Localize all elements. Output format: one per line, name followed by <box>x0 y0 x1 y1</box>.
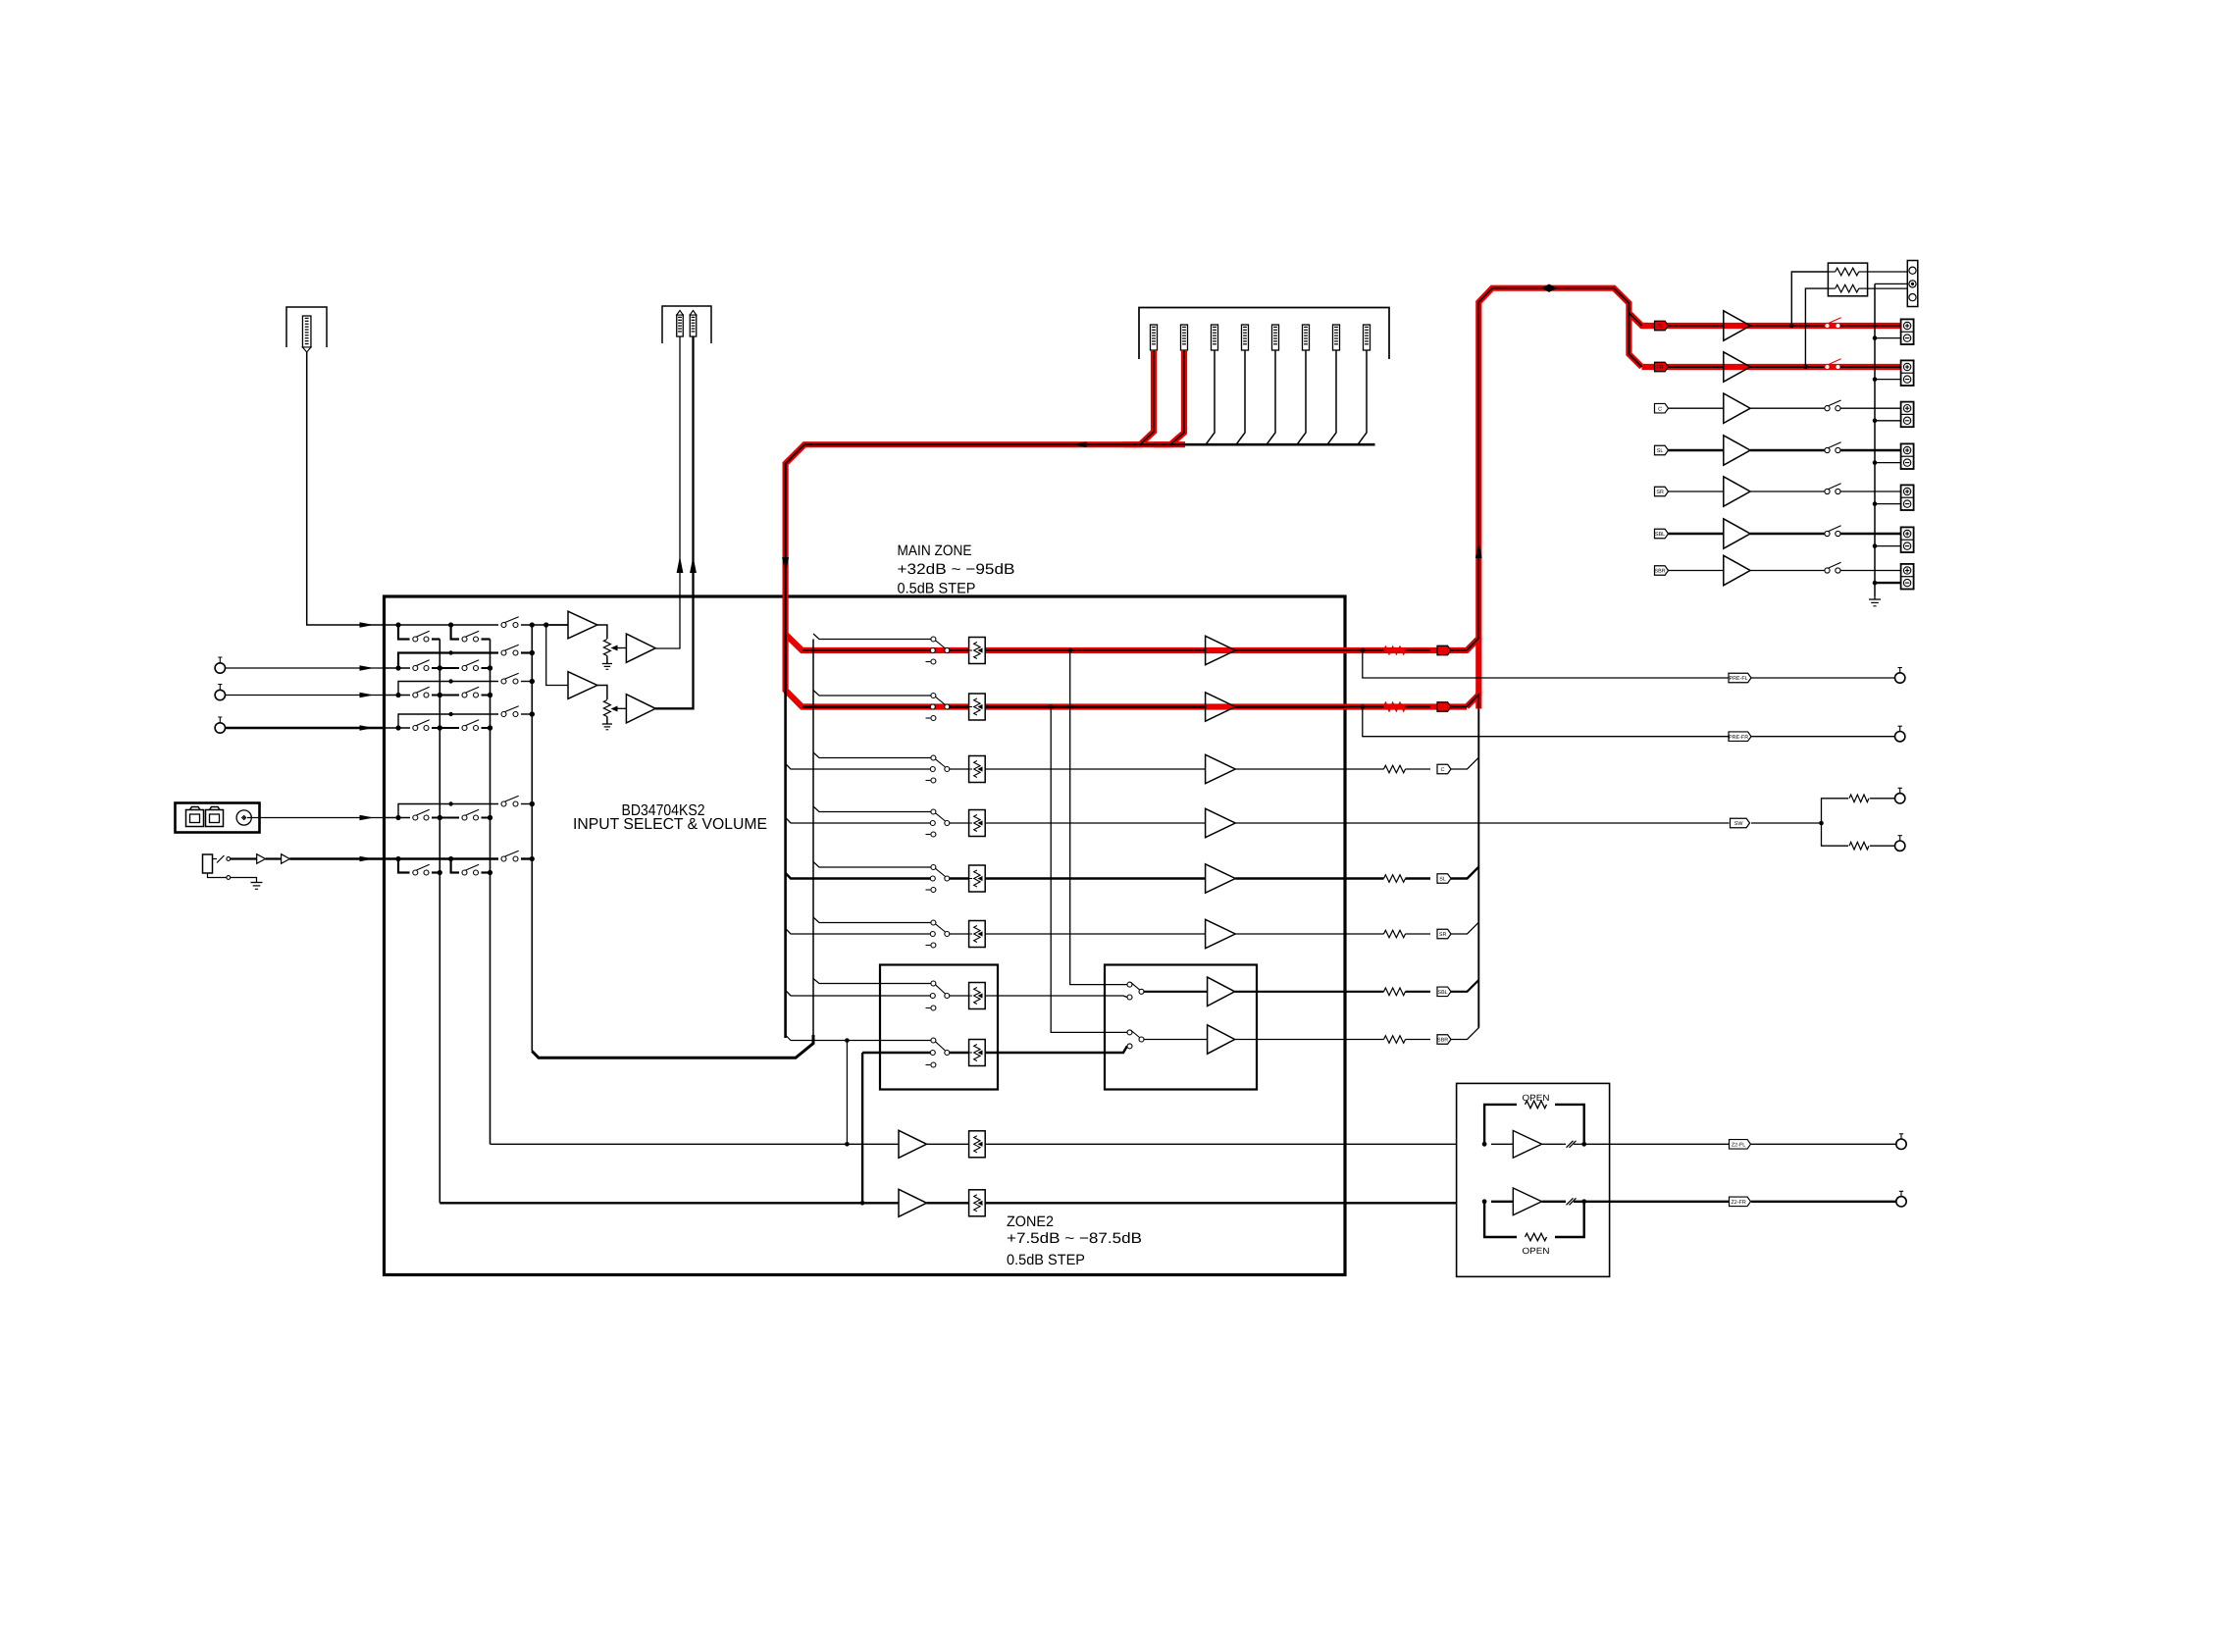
net tag SR out <box>1437 929 1451 939</box>
wire amp to relay SBL <box>1750 533 1825 535</box>
ground hp <box>251 882 263 884</box>
zone2 output block <box>1457 1083 1610 1276</box>
junction to zone2-L <box>845 1038 850 1043</box>
record tap FR vertical <box>1051 707 1127 1033</box>
wire relay to terminal SBR <box>1840 570 1901 572</box>
wire zone2-L out <box>985 1143 1456 1145</box>
wire relay to terminal FR <box>1840 366 1901 368</box>
bus3 link to tape bus <box>532 1035 813 1058</box>
terminal minus tap SL <box>1875 462 1901 464</box>
wire tape bus feed row SL <box>786 873 931 879</box>
jack zone2 R <box>1896 1197 1906 1207</box>
wire row FR from red bevel <box>802 705 930 707</box>
rec buffer U2a <box>546 625 568 686</box>
toslink connector 2 <box>206 810 224 827</box>
input switch row C <box>931 755 936 760</box>
headphone jack <box>203 854 213 873</box>
svg-text:0.5dB STEP: 0.5dB STEP <box>898 581 976 597</box>
input switch row SR <box>931 920 936 925</box>
connector CN3 pin 1 <box>1151 325 1158 350</box>
row RCA3 branch col3 <box>398 714 410 728</box>
zone2 amp Z2R <box>1482 1199 1487 1204</box>
wire row FL from red bevel <box>802 649 930 651</box>
bypass line row C <box>813 752 931 758</box>
wire tape bus feed row C <box>786 764 931 770</box>
speaker terminal FR <box>1901 360 1914 386</box>
row1 source wire <box>385 624 499 626</box>
net tag SBR out <box>1437 1035 1451 1045</box>
wire amp to relay FL <box>1750 325 1825 327</box>
svg-text:FL: FL <box>1657 324 1663 330</box>
volume element row SL <box>969 865 986 892</box>
row RCA2 branch col3 <box>398 682 410 696</box>
switch row RCA2 col3 <box>501 679 506 684</box>
wire volume to buffer row C <box>985 768 1205 770</box>
switch row1 col3 <box>501 623 506 628</box>
connector CN3 pin 8 <box>1364 325 1371 350</box>
wire bypass to SB-L top throw <box>813 979 931 984</box>
bus1 vertical select bus <box>439 640 440 1204</box>
net tag SW <box>1731 818 1750 828</box>
wire core pin2 <box>1170 350 1184 444</box>
terminal minus tap SBR <box>1875 582 1901 584</box>
hp sleeve to ground <box>208 873 227 878</box>
wire amp to relay SR <box>1750 490 1825 492</box>
resistor OPEN Z2L <box>1526 1101 1547 1109</box>
wire amp to relay C <box>1750 407 1825 409</box>
wire CN3 pin 8 <box>1358 350 1367 444</box>
power amp SL <box>1724 436 1750 465</box>
wire R2 to header <box>1868 287 1908 289</box>
wire R1 to FL row <box>1791 272 1828 326</box>
wire amp to relay SL <box>1750 449 1825 451</box>
wire buffer out row SL <box>1235 877 1345 879</box>
wire SW out <box>1345 822 1730 824</box>
wire CN1 to row1 <box>307 351 385 625</box>
net tag Z2-L <box>1730 1140 1751 1150</box>
level resistor R-rec1 <box>603 640 610 656</box>
switch row optical col1 <box>413 815 418 820</box>
resistor network R1 <box>1836 268 1859 276</box>
input switch row SW <box>931 809 936 814</box>
speaker terminal SR <box>1901 485 1914 510</box>
open link Z2L <box>1567 1141 1574 1148</box>
volume element row SW <box>969 810 986 837</box>
connector CN1 bracket <box>286 307 327 347</box>
sub block volume SB <box>880 965 998 1090</box>
connector CN2 bracket <box>662 306 711 343</box>
volume element row FR <box>969 694 986 720</box>
relay switch C <box>1825 406 1830 411</box>
optical/coax input box <box>176 803 260 833</box>
svg-text:0.5dB STEP: 0.5dB STEP <box>1007 1252 1085 1268</box>
resistor SR out <box>1345 933 1384 935</box>
wire C to bus riser <box>1451 757 1478 769</box>
volume element SB-L <box>950 995 969 997</box>
red path bus to volume IC <box>786 444 1185 706</box>
power amp FL <box>1724 311 1750 340</box>
resistor SBR out <box>1345 1039 1384 1041</box>
speaker terminal SBR <box>1901 564 1914 590</box>
pre-out FL branch <box>1363 650 1730 678</box>
connector CN3 pin 4 <box>1242 325 1249 350</box>
buffer SBR <box>1208 1025 1235 1054</box>
relay switch FL <box>1825 323 1830 328</box>
wire hp row to IC <box>289 857 384 859</box>
bypass line row SR <box>813 917 931 923</box>
net tag C out <box>1437 764 1451 774</box>
bus3 vertical select bus <box>531 625 533 1052</box>
toslink connector 1 <box>186 810 204 827</box>
bypass line row FR <box>813 691 931 697</box>
bus2 vertical select bus <box>490 640 492 1145</box>
wire switch to volume row SL <box>950 877 969 879</box>
red path amp rows FL FR <box>1642 323 1901 329</box>
jack PRE-FR <box>1895 732 1905 742</box>
wire to power amp SBR <box>1669 570 1724 572</box>
svg-text:PRE-FL: PRE-FL <box>1730 676 1748 682</box>
wire optical row to IC <box>247 817 385 819</box>
input switch SB-L <box>931 981 936 986</box>
buffer row C <box>1206 754 1236 783</box>
RCA input jack 2 <box>215 690 225 699</box>
wire relay to terminal SL <box>1840 449 1901 451</box>
row1 branch col1 <box>398 625 410 640</box>
resistor C out <box>1345 768 1384 770</box>
switch row optical col3 <box>501 801 506 806</box>
svg-text:INPUT SELECT & VOLUME: INPUT SELECT & VOLUME <box>573 816 767 833</box>
svg-text:FR: FR <box>1657 365 1664 371</box>
select switch SBL <box>1127 982 1132 987</box>
junction diamond on riser top <box>1541 284 1557 292</box>
wire volume to buffer row SW <box>985 822 1205 824</box>
input switch row SL <box>931 865 936 870</box>
hp branch col1 <box>398 859 410 873</box>
wire R2 to FR row <box>1805 288 1828 367</box>
row RCA1 wire in matrix <box>385 667 411 669</box>
svg-text:C: C <box>1441 767 1445 773</box>
connector CN3 pin 3 <box>1212 325 1218 350</box>
wire hp to buffer <box>231 857 257 859</box>
volume element row FL <box>969 638 986 664</box>
svg-text:SR: SR <box>1656 490 1664 495</box>
net tag amp C <box>1655 403 1669 413</box>
record tap FL vertical <box>1070 650 1127 985</box>
wire amp to relay SBR <box>1750 570 1825 572</box>
svg-text:MAIN ZONE: MAIN ZONE <box>898 542 972 559</box>
wire to power amp FR <box>1669 366 1724 368</box>
wire SBL to bus riser <box>1451 980 1478 992</box>
wire tape bus to SB-L input <box>786 991 931 997</box>
wire buffer out SBR <box>1235 1039 1345 1041</box>
wire CN3 pin 5 <box>1267 350 1275 444</box>
ground speaker bus <box>1874 596 1876 599</box>
wire zone2-L to jack <box>1610 1143 1730 1145</box>
wire bus1 to zone2-R <box>440 1202 899 1204</box>
buffer row SL <box>1206 864 1236 893</box>
RCA input jack 1 <box>215 663 225 673</box>
jack SW1 <box>1895 794 1905 803</box>
jack PRE-FL <box>1895 673 1905 683</box>
switch row RCA2 col1 <box>413 693 418 697</box>
wire buffer out row SR <box>1235 933 1345 935</box>
wire minus bus to header <box>1875 283 1907 284</box>
svg-text:SBR: SBR <box>1655 569 1666 575</box>
net tag FR out <box>1437 702 1451 712</box>
wire relay to terminal FL <box>1840 325 1901 327</box>
svg-text:SR: SR <box>1439 932 1447 938</box>
resistor OPEN Z2R <box>1526 1233 1547 1241</box>
bus main-in black <box>1184 443 1375 446</box>
net tag SL out <box>1437 874 1451 884</box>
wire switch to volume row C <box>950 768 969 770</box>
svg-text:SBL: SBL <box>1655 532 1665 538</box>
wire core pin1 <box>1140 350 1154 444</box>
wire volume to buffer row SR <box>985 933 1205 935</box>
terminal minus tap C <box>1875 420 1901 422</box>
select switch SBR <box>1127 1030 1132 1035</box>
svg-text:SBL: SBL <box>1437 990 1447 996</box>
power amp SR <box>1724 477 1750 506</box>
wire relay to terminal SR <box>1840 490 1901 492</box>
resistor SBL out <box>1345 991 1384 993</box>
relay switch FR <box>1825 364 1830 369</box>
bypass line row FL <box>813 634 931 640</box>
wire to power amp SL <box>1669 449 1724 451</box>
switch row RCA2 col2 <box>462 693 467 697</box>
wire CN3 pin 7 <box>1327 350 1336 444</box>
terminal minus tap FR <box>1875 379 1901 381</box>
resistor SW2 <box>1849 842 1869 850</box>
switch hp col3 <box>501 856 506 861</box>
wire CN3 pin 6 <box>1297 350 1306 444</box>
net tag SBL out <box>1437 987 1451 997</box>
net tag amp SL <box>1655 445 1669 455</box>
speaker terminal SL <box>1901 443 1914 469</box>
ground rec1 <box>602 663 612 665</box>
coax jack <box>236 810 251 825</box>
switch row RCA1 col3 <box>501 650 506 655</box>
relay switch SR <box>1825 489 1830 493</box>
svg-text:OPEN: OPEN <box>1523 1093 1550 1103</box>
input switch row FL <box>931 637 936 642</box>
buffer row FL <box>1206 636 1236 664</box>
headphone jack contact <box>213 858 218 860</box>
wire switch to volume row FR <box>950 705 969 707</box>
zone2-R volume element <box>969 1190 986 1216</box>
tape bus vertical <box>784 635 787 1039</box>
bus riser to main-in <box>1477 709 1479 1028</box>
wire amp to relay FR <box>1750 366 1825 368</box>
buffer SBL <box>1208 977 1235 1006</box>
zone2-R buffer <box>899 1189 927 1216</box>
wire rec out R <box>655 336 694 708</box>
wire switch to volume row FL <box>950 649 969 651</box>
wire volume to buffer row FL <box>985 649 1205 651</box>
header 3pin <box>1907 261 1918 307</box>
resistor network R2 <box>1836 284 1859 292</box>
ground rec2 <box>602 723 612 725</box>
connector CN3 bracket <box>1139 308 1389 360</box>
svg-text:SL: SL <box>1439 877 1446 883</box>
switch row RCA1 col1 <box>413 666 418 671</box>
wire CN3 pin 3 <box>1206 350 1215 444</box>
pre-out FR branch <box>1363 707 1730 737</box>
connector CN3 pin 5 <box>1272 325 1279 350</box>
net tag FL out <box>1437 645 1451 655</box>
bypass line row SL <box>813 862 931 868</box>
wire to buffer SBR <box>1144 1039 1208 1041</box>
terminal minus tap SR <box>1875 503 1901 505</box>
svg-text:PRE-FR: PRE-FR <box>1729 735 1748 741</box>
wire SBR to bus riser <box>1451 1028 1478 1040</box>
svg-text:OPEN: OPEN <box>1523 1246 1550 1256</box>
wire zone2-R out <box>985 1202 1456 1204</box>
jack zone2 L <box>1896 1139 1906 1149</box>
wire core bus <box>786 444 1186 634</box>
terminal minus tap FL <box>1875 337 1901 339</box>
buffer row SR <box>1206 919 1236 948</box>
connector CN3 pin 6 <box>1303 325 1310 350</box>
svg-text:SW: SW <box>1734 821 1744 827</box>
terminal minus tap SBL <box>1875 545 1901 547</box>
wire to power amp C <box>1669 407 1724 409</box>
IC block BD34704KS2 input select &amp; volume <box>385 596 1346 1275</box>
switch row RCA3 col2 <box>462 726 467 731</box>
svg-text:+32dB ~ −95dB: +32dB ~ −95dB <box>898 561 1015 578</box>
net tag amp FL <box>1655 321 1669 331</box>
resistor FL out <box>1384 646 1406 654</box>
input switch row FR <box>931 694 936 698</box>
row optical wire in matrix <box>385 817 411 819</box>
hp buffer 1 <box>257 854 266 864</box>
svg-text:+7.5dB ~ −87.5dB: +7.5dB ~ −87.5dB <box>1007 1230 1142 1247</box>
net tag amp FR <box>1655 362 1669 372</box>
rec buffer U1a <box>549 624 568 626</box>
hp buffer 2 <box>266 857 282 859</box>
wire to power amp FL <box>1669 325 1724 327</box>
level resistor R-rec2 <box>603 700 610 717</box>
relay switch SBR <box>1825 568 1830 573</box>
wire to buffer SBL <box>1144 991 1208 993</box>
wire RCA input 2 to IC <box>226 695 385 697</box>
speaker terminal SBL <box>1901 527 1914 552</box>
resistor SL out <box>1345 877 1384 879</box>
power amp SBL <box>1724 519 1750 548</box>
switch row RCA1 col2 <box>462 666 467 671</box>
wire SW1 branch <box>1822 799 1849 823</box>
wire rec out L <box>655 336 680 648</box>
resistor FR out <box>1384 703 1406 711</box>
wire switch to volume row SW <box>950 822 969 824</box>
wire relay to terminal C <box>1840 407 1901 409</box>
rec buffer U1b <box>626 634 655 662</box>
wire zone2 bus to SB-R input <box>862 1052 930 1054</box>
wire buffer out row SW <box>1235 822 1345 824</box>
rec buffer U2b <box>626 695 655 723</box>
jack SW2 <box>1895 841 1905 851</box>
wire SW2 branch <box>1822 823 1849 846</box>
connector CN1 pin <box>302 316 311 347</box>
wire tape bus end to SB-R top throw <box>786 1035 931 1041</box>
buffer row SW <box>1206 808 1236 837</box>
row hp in matrix <box>385 857 499 859</box>
wire volume to buffer row SL <box>985 877 1205 879</box>
wire buffer out SBL <box>1235 991 1345 993</box>
zone2 amp Z2L <box>1482 1142 1487 1147</box>
volume element row C <box>969 756 986 783</box>
impedance resistor box <box>1828 263 1867 296</box>
relay switch SL <box>1825 447 1830 452</box>
wire switch to volume row SR <box>950 933 969 935</box>
net tag PRE-FL <box>1729 673 1751 683</box>
switch row optical col2 <box>462 815 467 820</box>
RCA input jack 3 <box>215 723 225 733</box>
row RCA1 branch col3 <box>398 653 410 669</box>
net tag amp SR <box>1655 487 1669 496</box>
wire zone2-R to jack <box>1610 1201 1730 1203</box>
zone2-L volume element <box>969 1131 986 1158</box>
row RCA3 wire in matrix <box>385 727 411 729</box>
net tag amp SBL <box>1655 529 1669 539</box>
open link Z2R <box>1567 1198 1574 1205</box>
wire relay to terminal SBL <box>1840 533 1901 535</box>
net tag Z2-R <box>1730 1197 1751 1207</box>
switch row RCA3 col3 <box>501 712 506 717</box>
svg-text:ZONE2: ZONE2 <box>1007 1213 1054 1230</box>
wire buffer out row FR <box>1235 705 1345 707</box>
wire buffer out row C <box>1235 768 1345 770</box>
wire tape bus feed row SW <box>786 818 931 824</box>
power amp FR <box>1724 352 1750 382</box>
wire CN3 pin 4 <box>1236 350 1245 444</box>
wire bus2 to zone2-L <box>491 1143 900 1145</box>
connector CN3 pin 7 <box>1333 325 1340 350</box>
wire to power amp SR <box>1669 490 1724 492</box>
row RCA2 wire in matrix <box>385 695 411 697</box>
svg-text:Z2-FL: Z2-FL <box>1732 1142 1745 1148</box>
wire RCA input 3 to IC <box>226 727 385 729</box>
svg-text:C: C <box>1658 406 1662 412</box>
wire SR to bus riser <box>1451 922 1478 934</box>
buffer row FR <box>1206 693 1236 721</box>
net tag PRE-FR <box>1729 732 1751 742</box>
speaker terminal FL <box>1901 319 1914 344</box>
wire core riser <box>1467 288 1642 650</box>
speaker terminal C <box>1901 402 1914 428</box>
hp branch col2 <box>451 859 459 873</box>
svg-text:SL: SL <box>1657 448 1664 454</box>
wire buffer out row FL <box>1235 649 1345 651</box>
zone2-L buffer <box>899 1130 927 1158</box>
bypass bus vertical <box>812 640 814 1044</box>
wire SB-L out <box>985 996 1127 998</box>
input switch SB-R <box>931 1038 936 1043</box>
power amp SBR <box>1724 555 1750 585</box>
red path rows FL FR to power amp riser <box>1345 703 1467 709</box>
net tag amp SBR <box>1655 566 1669 576</box>
wire R1 to header <box>1868 271 1908 273</box>
connector CN2 pin L <box>677 315 684 336</box>
relay switch SBL <box>1825 531 1830 536</box>
wire RCA input 1 to IC <box>226 667 385 669</box>
svg-text:SBR: SBR <box>1437 1038 1448 1044</box>
wire to power amp SBL <box>1669 533 1724 535</box>
wire tape bus feed row SR <box>786 929 931 935</box>
volume element row SR <box>969 921 986 948</box>
wire SB-R out <box>985 1046 1127 1053</box>
row optical branch col3 <box>398 804 410 818</box>
